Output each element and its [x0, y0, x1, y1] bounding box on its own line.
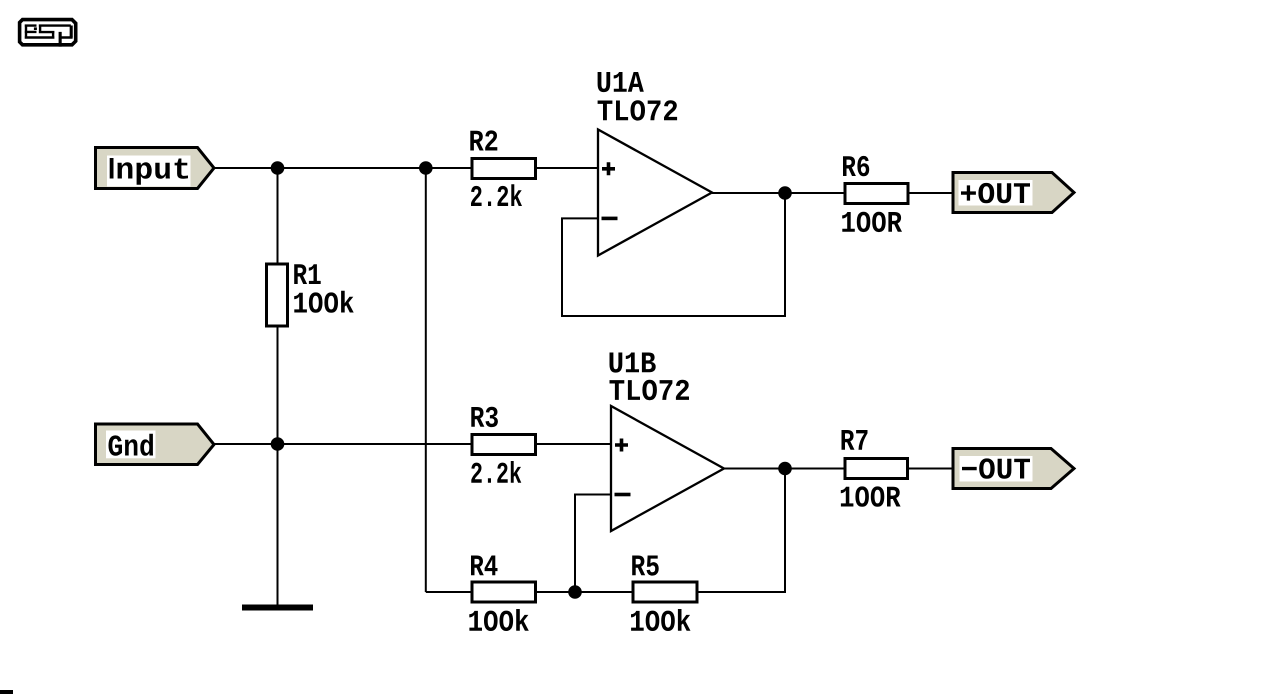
wire U1B inverting input [575, 495, 611, 593]
op-amp U1B [611, 406, 724, 531]
value TL072 [598, 100, 678, 120]
wire R1 top [277, 168, 279, 266]
value 100k [469, 609, 529, 631]
op-amp U1A [598, 130, 712, 256]
wire input line [213, 167, 472, 169]
value 2.2k [471, 184, 522, 206]
node U1B output junction [778, 462, 792, 476]
value 100k [294, 291, 354, 313]
wire U1A output [712, 192, 845, 194]
node input branch junction [419, 161, 433, 175]
wire R4 to R5 [536, 591, 634, 593]
node gnd/R1 junction [271, 437, 285, 451]
node U1A output junction [778, 186, 792, 200]
wire R7 to -OUT [908, 468, 955, 470]
label R4 [471, 556, 498, 576]
wire R3 to U1B [536, 443, 612, 445]
label U1B [610, 353, 656, 373]
resistor R6 [845, 184, 908, 204]
wire R5 to output [697, 469, 785, 593]
label R3 [471, 407, 498, 427]
wire R6 to +OUT [908, 192, 954, 194]
wire U1A feedback [562, 193, 785, 316]
value TL072 [610, 380, 690, 400]
wire U1B output [724, 468, 845, 470]
wire branch to R4 [426, 591, 472, 593]
resistor R3 [472, 435, 536, 455]
wire vertical branch to R4 [425, 168, 427, 592]
label R7 [842, 430, 868, 450]
node R4/R5 junction [568, 585, 582, 599]
tag Gnd [96, 424, 215, 465]
value 100R [842, 212, 902, 232]
wire R2 to U1A [536, 167, 599, 169]
label R5 [632, 556, 659, 576]
node input/R1 junction [271, 161, 285, 175]
value 2.2k [471, 461, 521, 483]
wire R1 bottom to ground [277, 326, 279, 605]
ground [242, 605, 313, 611]
wire gnd line [213, 443, 472, 445]
tag +OUT [953, 173, 1074, 213]
resistor R7 [845, 459, 908, 479]
value 100k [631, 609, 691, 631]
resistor R2 [472, 159, 536, 179]
resistor R4 [472, 582, 536, 602]
tag -OUT [953, 449, 1074, 489]
tag Input [96, 148, 215, 189]
label U1A [598, 72, 644, 92]
label R6 [843, 156, 869, 176]
resistor R5 [633, 582, 697, 602]
resistor R1 [267, 264, 288, 326]
label R2 [470, 130, 497, 150]
corner artifact block [0, 690, 13, 694]
ESP logo [20, 20, 76, 47]
value 100R [841, 486, 901, 506]
label R1 [294, 264, 321, 284]
